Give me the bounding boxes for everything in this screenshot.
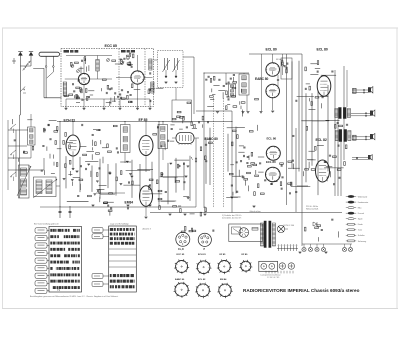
dashed separator line left xyxy=(213,98,215,207)
driver transformer LS3 xyxy=(353,135,357,140)
trimmer C5 xyxy=(107,59,110,62)
tone network parts xyxy=(255,175,259,177)
wire x296 bus xyxy=(295,128,297,212)
wire AFC feed xyxy=(154,59,158,61)
switch S1a antenna trim xyxy=(20,87,25,92)
svg-text:Taste: Taste xyxy=(358,229,362,232)
coil L4 output xyxy=(151,82,154,93)
wire x247 vertical xyxy=(246,95,248,111)
svg-text:Elko: Elko xyxy=(358,208,362,210)
output transformer T6 xyxy=(339,130,342,142)
wire speaker3 leads xyxy=(352,136,370,138)
phono motor M1 xyxy=(239,228,249,238)
trimmer C3 xyxy=(77,70,80,73)
svg-text:Lage und Schaltfolge: Lage und Schaltfolge xyxy=(110,223,130,226)
svg-text:ECL 82: ECL 82 xyxy=(198,279,206,281)
label Tuner C xyxy=(121,50,126,53)
cathode ground V5 xyxy=(272,97,274,110)
svg-text:ECH 81: ECH 81 xyxy=(64,118,76,122)
RC parts V1b bottom xyxy=(110,98,112,105)
svg-text:B 250 C 100: B 250 C 100 xyxy=(284,225,295,227)
svg-text:2) Drahtbr. bei 110 V≈: 2) Drahtbr. bei 110 V≈ xyxy=(222,217,242,220)
auxiliary contact boxes xyxy=(92,228,103,233)
svg-text:Drossel: Drossel xyxy=(358,212,365,215)
svg-text:EABC 80: EABC 80 xyxy=(205,137,218,141)
wire box B to delay box xyxy=(175,88,177,101)
svg-text:RADIORICEVITORE IMPERIAL Cha: RADIORICEVITORE IMPERIAL Chassis 6093/a … xyxy=(243,288,360,293)
svg-text:EF 89: EF 89 xyxy=(242,254,249,256)
speaker LS4 tweeter xyxy=(368,155,370,159)
svg-text:ECL 82: ECL 82 xyxy=(316,138,327,142)
screw terminal b xyxy=(288,263,294,269)
IF transformer T1 xyxy=(28,127,36,145)
antenna AM 1 xyxy=(19,55,21,115)
speaker connector panel xyxy=(259,261,278,271)
push button key column xyxy=(35,228,47,233)
label UKW Tastensatz xyxy=(64,50,70,53)
speaker LS2 xyxy=(370,111,372,116)
volume potentiometer P1 xyxy=(195,158,197,162)
RC cluster ECH81 grid xyxy=(56,127,58,131)
FM dipole antenna xyxy=(39,52,60,56)
mains filter parts xyxy=(321,229,323,231)
RC cluster EF85 cathode xyxy=(109,193,113,195)
triode V1b ECC85 xyxy=(131,71,144,84)
connector pin strip xyxy=(265,271,267,274)
antenna AM 2 xyxy=(30,55,32,66)
wire left margin vertical xyxy=(7,120,9,190)
AM oscillator coil assembly xyxy=(19,165,30,198)
svg-text:Spule: Spule xyxy=(358,219,363,221)
band switch contacts left xyxy=(11,124,16,128)
wire speaker2 leads xyxy=(351,112,370,114)
wire ratio det top xyxy=(204,72,249,74)
svg-text:EF 85: EF 85 xyxy=(220,254,227,256)
dial lamp La3 xyxy=(315,247,319,251)
misc parts AM left upper xyxy=(27,119,32,121)
RC parts V1b top xyxy=(129,52,131,54)
RC cluster EF85 top xyxy=(108,151,112,153)
terminal E xyxy=(13,58,15,64)
tube socket ECL82 xyxy=(197,284,210,297)
svg-text:Kondensator: Kondensator xyxy=(358,201,369,204)
grid network V6 xyxy=(305,67,307,71)
wire x204 vertical xyxy=(203,73,205,208)
wire speaker1 leads xyxy=(352,89,368,91)
RF choke L0 zigzag xyxy=(23,61,32,70)
wire x302 bus xyxy=(301,54,303,246)
svg-text:Netzanschluß: Netzanschluß xyxy=(306,208,319,211)
FM detector parts cluster xyxy=(218,90,225,92)
dial lamp La2 xyxy=(308,247,312,251)
svg-text:ECH 81: ECH 81 xyxy=(198,254,206,256)
pentagrid tube V2 ECH81 xyxy=(66,135,80,156)
tuning indicator V9 EM84 xyxy=(140,186,153,207)
misc parts IF band B xyxy=(167,140,169,142)
ground row2 xyxy=(76,170,79,172)
FM tuner shield box outline xyxy=(61,49,154,107)
IF transformer T3 xyxy=(158,125,168,149)
dial lamp La1 xyxy=(302,247,306,251)
variable capacitor C4 tuning xyxy=(121,62,124,65)
wire y110 rail xyxy=(196,110,232,112)
ferrite antenna coil box xyxy=(34,177,57,197)
IF transformer T4 ratio detector xyxy=(239,74,249,95)
dashed separator line right xyxy=(223,98,225,207)
svg-text:Gleichrichter: Gleichrichter xyxy=(250,210,262,213)
misc parts right amp extra xyxy=(315,146,317,150)
trimmer C2 xyxy=(71,65,74,68)
driver transformer LS1 xyxy=(353,88,357,93)
screw terminal a xyxy=(279,263,285,269)
svg-text:Schalter: Schalter xyxy=(358,234,365,237)
audio coupling parts xyxy=(246,162,248,164)
triode V7a ECL80 lower xyxy=(266,146,280,160)
wires FM box internal xyxy=(83,57,85,73)
svg-text:EABC 80: EABC 80 xyxy=(175,278,185,281)
wire antenna bus y66 xyxy=(20,65,31,67)
RC parts V1a top xyxy=(79,67,84,69)
ratio detector diodes xyxy=(205,78,207,80)
svg-text:EABC 80: EABC 80 xyxy=(255,77,268,81)
coil L2 oscillator xyxy=(96,60,99,72)
wire IF section top rail xyxy=(57,121,232,123)
wire x194 vertical xyxy=(193,57,195,114)
de-emphasis parts xyxy=(205,156,207,160)
wires left AM area xyxy=(8,129,28,131)
wire top rail right xyxy=(249,53,302,55)
svg-text:ECL 80: ECL 80 xyxy=(266,160,276,164)
svg-text:Bei Tastenstellung gedrückt: Bei Tastenstellung gedrückt xyxy=(34,223,59,226)
wire lamp chain xyxy=(302,243,352,245)
electrolytic capacitor C51 xyxy=(69,206,71,218)
svg-text:Diode: Diode xyxy=(358,224,363,226)
table column gaps xyxy=(56,227,58,292)
pilot lamp La5 xyxy=(342,247,346,251)
RC parts right of EM84 xyxy=(204,207,206,213)
ground AFC box xyxy=(165,81,168,83)
svg-text:1 2 3 4 5 6 7 8 9: 1 2 3 4 5 6 7 8 9 xyxy=(267,277,279,279)
pentode tube V3 EF85 xyxy=(139,136,153,156)
variable capacitor C8 AFC xyxy=(164,58,166,70)
junction nodes top rail xyxy=(59,121,60,122)
coupling parts V7 V8 xyxy=(280,182,282,186)
dial lamp La4 xyxy=(321,247,325,251)
mains voltage selector box xyxy=(229,224,263,242)
speaker LS3 xyxy=(370,134,372,139)
tube socket EABC80 xyxy=(175,283,188,296)
speaker LS1 xyxy=(368,88,370,93)
triode V5a ECL80 xyxy=(266,63,280,77)
RC cluster EABC80 top xyxy=(186,126,188,128)
ground power b xyxy=(325,251,328,253)
svg-text:Widerstand: Widerstand xyxy=(358,195,367,198)
svg-text:ECL 80: ECL 80 xyxy=(266,48,277,52)
tube socket EM84 xyxy=(219,284,231,296)
electrolytic capacitor C50 xyxy=(59,206,61,218)
ground power a xyxy=(299,251,302,253)
svg-text:1) Drahtbr. bei 220 V≈: 1) Drahtbr. bei 220 V≈ xyxy=(222,214,242,217)
svg-text:EM 84: EM 84 xyxy=(220,278,227,281)
fuse Si1 xyxy=(252,228,258,231)
wire x159 vertical xyxy=(158,122,160,208)
DIN socket SO2 bottom view xyxy=(198,233,211,246)
parts along B+ bus xyxy=(345,145,347,149)
svg-text:ECL 80: ECL 80 xyxy=(317,48,328,52)
wire mesh right xyxy=(291,61,293,167)
svg-text:Sicherung: Sicherung xyxy=(358,240,366,243)
detector transformer T4b xyxy=(229,84,236,97)
wire x232 vertical xyxy=(231,111,233,213)
svg-text:EM84: EM84 xyxy=(125,201,134,205)
wire antenna bus down xyxy=(19,115,21,198)
variable capacitor C9 AFC xyxy=(174,58,176,70)
output tube V6 ECL82 upper xyxy=(317,76,331,96)
insulator ring right leg xyxy=(52,66,54,68)
wire EM84 feed xyxy=(96,192,125,194)
EM84 cathode ground xyxy=(145,206,147,216)
grounds below EM84 xyxy=(169,213,172,215)
coil L1 FM input xyxy=(63,82,66,96)
output transformer T5 xyxy=(339,108,342,119)
wire B+ rail row2 xyxy=(60,206,196,208)
svg-text:Bestellangaben gemessen mit Rö: Bestellangaben gemessen mit Röhrenvoltme… xyxy=(30,295,119,298)
svg-text:ECC 85: ECC 85 xyxy=(105,44,117,48)
wiring table xyxy=(109,226,137,292)
IF transformer T2 xyxy=(121,125,131,153)
RC cluster detector out xyxy=(178,165,180,167)
diode D1 xyxy=(313,222,317,226)
tube socket ECC85 xyxy=(176,261,188,273)
capacitor C40 tweeter xyxy=(356,157,358,159)
wire speaker4 leads xyxy=(352,156,368,158)
pentode V5b ECL80 xyxy=(266,84,280,98)
resistor R20 anode xyxy=(282,62,284,66)
switch contact table xyxy=(49,227,82,293)
cathode network V6 xyxy=(322,96,324,98)
RC parts V1a left xyxy=(77,95,79,97)
tube socket ECH81 xyxy=(197,261,210,274)
bridge rectifier GR1 xyxy=(278,226,284,232)
feedline FM dipole xyxy=(45,67,47,97)
ground marks mid row xyxy=(216,111,219,113)
coil L3 interstage xyxy=(149,59,152,70)
capacitor C30 coupling xyxy=(277,79,279,81)
svg-text:ECC 85: ECC 85 xyxy=(177,254,185,256)
misc parts AM left lower xyxy=(43,170,45,175)
B+ bus verticals right xyxy=(334,70,336,196)
dashed box FM AFC unit xyxy=(158,51,184,88)
svg-text:ECL 80: ECL 80 xyxy=(267,137,277,141)
wire mesh row2 xyxy=(65,156,67,188)
EM84 grid resistor xyxy=(158,190,162,192)
insulator ring left leg xyxy=(45,66,47,68)
AM detector parts xyxy=(227,98,229,100)
wire left B+ drop xyxy=(59,122,61,208)
RC cluster below T1 xyxy=(88,195,92,197)
misc parts FM box extra xyxy=(74,95,76,98)
wire x286 bus xyxy=(286,54,288,205)
wire mains rail xyxy=(150,212,342,214)
delay network box xyxy=(172,100,192,122)
triode V1a ECC85 xyxy=(78,73,89,84)
feedback parts xyxy=(311,169,315,171)
RC parts box right xyxy=(156,87,164,89)
tube socket EF85 xyxy=(218,261,230,273)
legend symbol table xyxy=(348,195,354,197)
triple diode triode V4 EABC80 xyxy=(176,133,194,144)
svg-text:Ansicht 3: Ansicht 3 xyxy=(143,228,152,231)
shield box right of V5a xyxy=(281,58,292,79)
power transformer T7 xyxy=(264,221,266,248)
ground pins FM box xyxy=(65,99,67,108)
parts above sockets xyxy=(189,230,193,232)
pilot lamp La6 xyxy=(348,247,352,251)
svg-text:CL,O: CL,O xyxy=(178,248,184,251)
RC parts left of EM84 xyxy=(103,202,107,204)
tube socket EF89 xyxy=(241,261,251,271)
DIN socket SO1 bottom view xyxy=(176,232,190,246)
misc parts IF band A xyxy=(65,133,67,137)
trimmer C6 xyxy=(127,57,130,60)
wire mesh detector xyxy=(205,138,207,184)
terminal strip power xyxy=(277,248,298,250)
voltage selector plate xyxy=(232,227,241,234)
output tube V8 ECL82 lower xyxy=(316,160,330,182)
resistor R21 screen xyxy=(286,69,288,73)
misc parts detector extra xyxy=(230,164,234,166)
pentode V7b ECL80 lower xyxy=(266,167,281,182)
svg-text:220 V≈ 50 Hz: 220 V≈ 50 Hz xyxy=(306,206,318,208)
